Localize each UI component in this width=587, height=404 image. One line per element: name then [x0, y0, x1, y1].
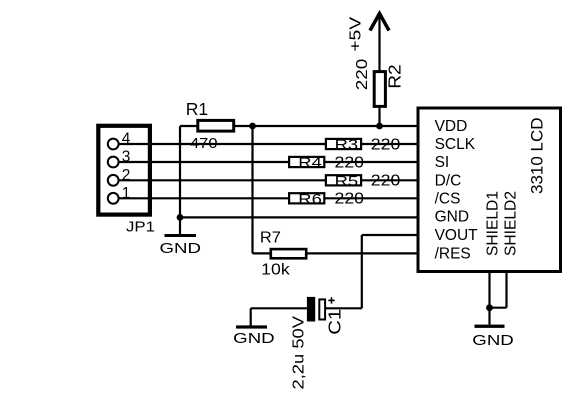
IC U1 3310 LCD body — [418, 108, 561, 272]
capacitor C1 value 2,2u 50V — [291, 315, 308, 389]
wire VOUT net horizontal — [362, 234, 417, 236]
connector JP1 pin number 1 — [122, 185, 131, 202]
svg-text:R3: R3 — [335, 138, 359, 154]
svg-text:1: 1 — [122, 185, 131, 202]
svg-text:10k: 10k — [261, 261, 290, 278]
ground symbol right — [475, 325, 505, 328]
capacitor C1 plus sign — [328, 297, 334, 303]
svg-text:JP1: JP1 — [126, 219, 155, 236]
resistor R4 value 220 — [335, 154, 365, 171]
connector JP1 pin number 4 — [122, 131, 131, 148]
IC U1 pin label VOUT — [435, 227, 479, 244]
resistor R2 value 220 — [354, 58, 371, 90]
IC U1 pin label D/C — [435, 172, 462, 189]
resistor R6 value 220 — [335, 191, 365, 208]
IC U1 pin label SI — [435, 154, 450, 171]
svg-text:VDD: VDD — [435, 118, 468, 135]
wire VDD junction to R7 vertical — [251, 126, 253, 253]
resistor R3 body — [326, 139, 361, 149]
ground label middle — [233, 331, 275, 347]
connector JP1 pin circles — [108, 139, 119, 204]
node junction GND-left — [177, 214, 184, 221]
IC U1 pin label /RES — [435, 245, 471, 262]
svg-text:VOUT: VOUT — [435, 227, 479, 244]
connector JP1 pin number 2 — [122, 167, 131, 184]
IC U1 pin label VDD — [435, 118, 468, 135]
node junction shields — [486, 304, 493, 311]
resistor R7 value 10k — [261, 261, 290, 278]
resistor R1 label — [186, 99, 208, 119]
wire /RES net horizontal — [253, 252, 417, 254]
svg-text:3310 LCD: 3310 LCD — [527, 118, 546, 195]
wire /CS net — [119, 197, 417, 199]
wire R1 left to GND vertical — [179, 126, 181, 217]
svg-text:C1: C1 — [325, 309, 345, 335]
resistor R5 value 220 — [371, 173, 401, 190]
svg-text:R2: R2 — [385, 64, 405, 89]
svg-text:R7: R7 — [260, 229, 281, 246]
wire GND stub left — [179, 217, 181, 234]
resistor R5 label — [335, 174, 359, 190]
svg-text:SHIELD1: SHIELD1 — [485, 191, 502, 256]
wire SCLK net — [119, 143, 417, 145]
IC U1 name 3310 LCD — [527, 118, 546, 195]
resistor R2 label — [385, 64, 405, 89]
svg-text:/RES: /RES — [435, 245, 471, 262]
svg-text:GND: GND — [472, 333, 514, 349]
wire D/C net — [119, 179, 417, 181]
resistor R4 body — [289, 157, 324, 167]
resistor R4 label — [298, 156, 322, 172]
resistor R1 body — [198, 120, 234, 131]
wire SI net — [119, 161, 417, 163]
connector JP1 body — [98, 126, 150, 215]
ground symbol middle — [236, 325, 267, 328]
svg-text:GND: GND — [435, 209, 469, 226]
wire SHIELD1 down — [488, 272, 490, 325]
resistor R6 label — [298, 192, 322, 208]
svg-text:GND: GND — [233, 331, 275, 347]
ground symbol left — [165, 234, 197, 237]
svg-text:R5: R5 — [335, 174, 359, 190]
svg-text:SCLK: SCLK — [435, 136, 476, 153]
capacitor C1 label — [325, 309, 345, 335]
node junction VDD-R1 — [249, 123, 256, 130]
IC U1 pin label SHIELD2 — [502, 191, 519, 256]
svg-text:2,2u 50V: 2,2u 50V — [291, 315, 308, 389]
wire VOUT to C1 vertical — [326, 235, 362, 308]
resistor R3 label — [335, 138, 359, 154]
resistor R3 value 220 — [371, 136, 401, 153]
svg-text:R6: R6 — [298, 192, 322, 208]
power +5V arrow — [370, 14, 389, 31]
IC U1 pin label /CS — [435, 190, 461, 207]
wire SHIELD2 down — [490, 272, 507, 308]
IC U1 pin label GND — [435, 209, 469, 226]
resistor R7 label — [260, 229, 281, 246]
svg-text:GND: GND — [160, 241, 202, 257]
svg-text:SHIELD2: SHIELD2 — [502, 191, 519, 256]
resistor R6 body — [289, 193, 324, 203]
svg-text:4: 4 — [122, 131, 131, 148]
svg-text:220: 220 — [354, 58, 371, 90]
svg-text:+5V: +5V — [347, 16, 364, 51]
svg-text:/CS: /CS — [435, 190, 461, 207]
connector JP1 label — [126, 219, 155, 236]
wire +5V to R2 shaft — [378, 14, 380, 127]
capacitor C1 plates — [307, 297, 325, 322]
resistor R7 body — [271, 249, 306, 258]
svg-text:R1: R1 — [186, 99, 208, 119]
svg-text:R4: R4 — [298, 156, 322, 172]
svg-text:D/C: D/C — [435, 172, 462, 189]
IC U1 pin label SHIELD1 — [485, 191, 502, 256]
svg-text:3: 3 — [122, 149, 131, 166]
IC U1 pin label SCLK — [435, 136, 476, 153]
connector JP1 pin number 3 — [122, 149, 131, 166]
wire C1 negative to GND — [251, 308, 307, 326]
svg-text:2: 2 — [122, 167, 131, 184]
power +5V label — [347, 16, 364, 51]
svg-text:SI: SI — [435, 154, 450, 171]
wire VDD net horizontal — [180, 125, 417, 127]
ground label right — [472, 333, 514, 349]
resistor R5 body — [326, 175, 361, 185]
ground label left — [160, 241, 202, 257]
resistor R2 body — [374, 72, 385, 107]
wire GND net horizontal — [180, 216, 417, 218]
resistor R1 value 470 — [190, 135, 218, 152]
node junction VDD-R2 — [376, 123, 383, 130]
